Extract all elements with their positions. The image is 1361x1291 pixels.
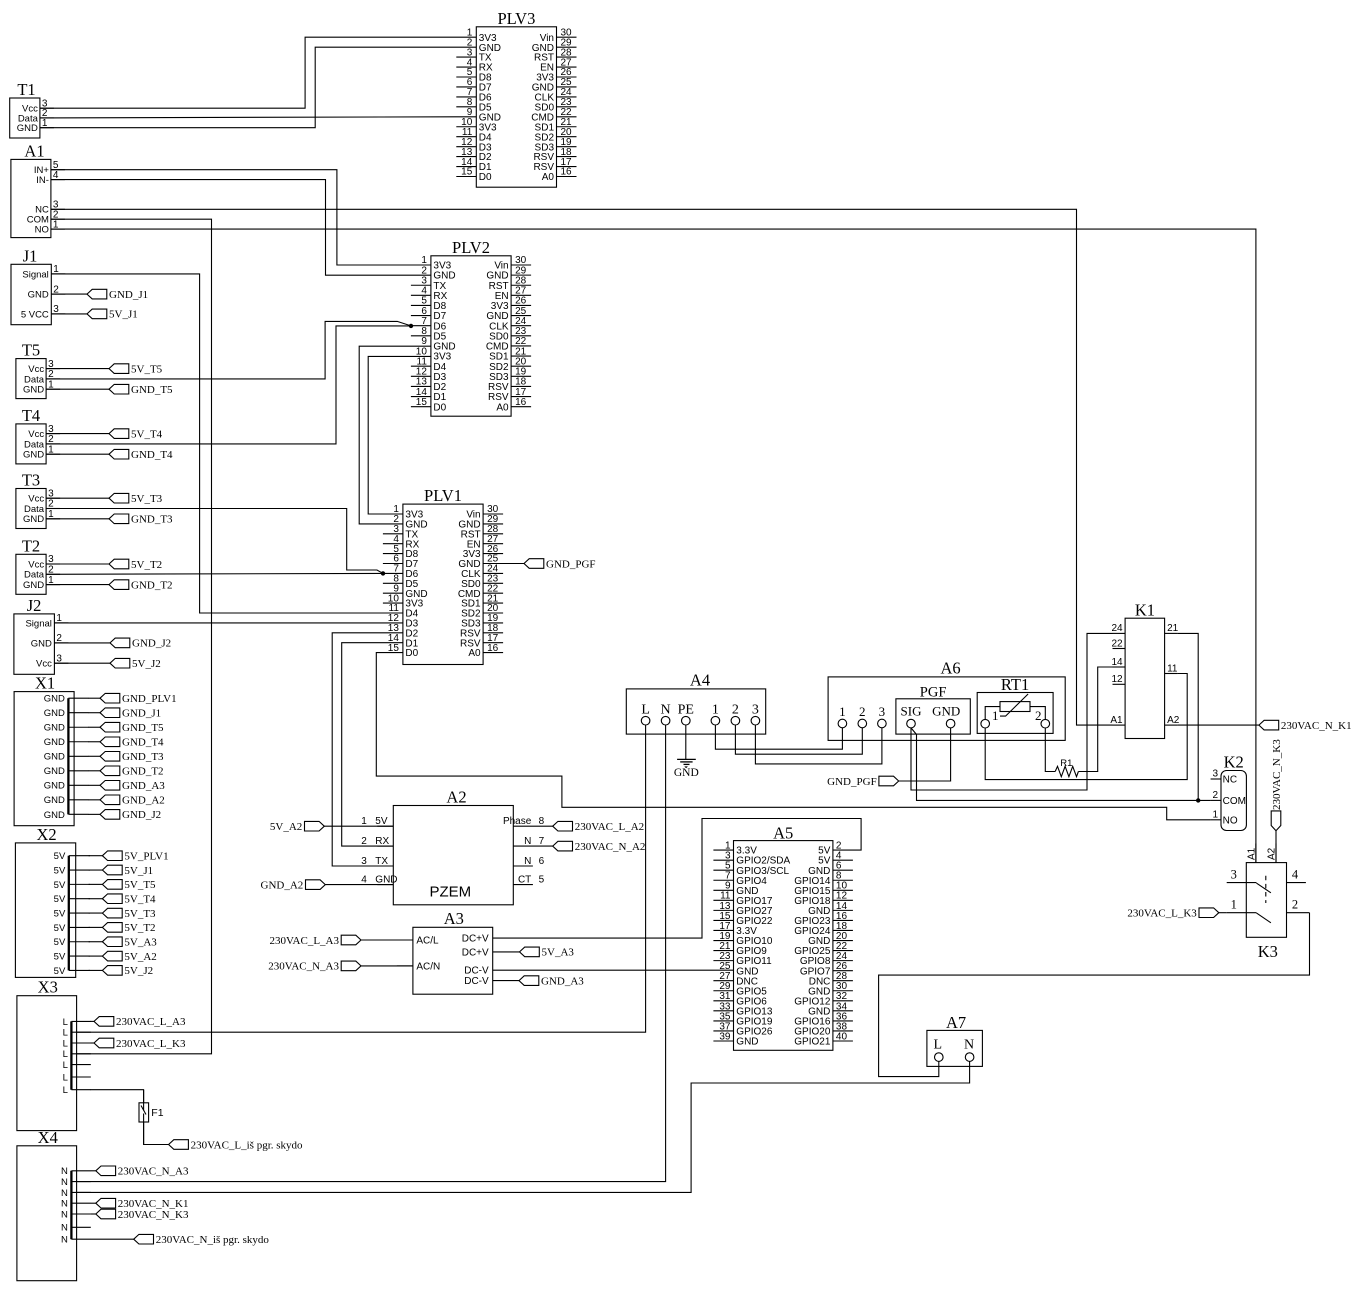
wire X2-5V_PLV1 xyxy=(89,855,103,857)
wire A3.DC-V-A5.25 xyxy=(493,969,734,971)
wire X2-5V_A2 xyxy=(89,955,103,957)
svg-text:A3: A3 xyxy=(444,909,464,928)
wire R1-K1.14 xyxy=(1078,667,1112,772)
X2 internal bus wire xyxy=(15,825,90,978)
net label 5V_J1 xyxy=(87,309,138,321)
svg-text:230VAC_N_K3: 230VAC_N_K3 xyxy=(118,1209,189,1221)
svg-text:7: 7 xyxy=(539,836,545,847)
svg-text:GND: GND xyxy=(17,123,38,134)
svg-text:GND_A2: GND_A2 xyxy=(122,795,165,807)
wire K3.2-A7.L xyxy=(879,913,1310,1077)
svg-text:14: 14 xyxy=(1111,657,1123,668)
wire RT1.2-R1 xyxy=(1045,728,1055,772)
wire X2-5V_T3 xyxy=(89,912,103,914)
svg-text:230VAC_N_A3: 230VAC_N_A3 xyxy=(118,1166,189,1178)
wire A3.DC-V-GND_A3 xyxy=(493,980,519,982)
svg-text:GND_J2: GND_J2 xyxy=(132,638,171,650)
svg-text:GND: GND xyxy=(736,1037,758,1048)
module PLV1 xyxy=(383,486,503,664)
svg-text:5V: 5V xyxy=(54,937,66,948)
wire T1.GND-PLV3.2 xyxy=(40,47,476,128)
svg-text:Vcc: Vcc xyxy=(36,659,52,670)
svg-text:N: N xyxy=(61,1235,68,1246)
net label 5V_A3 xyxy=(520,947,575,959)
net label 5V_T3 xyxy=(109,493,163,505)
wire J1.VCC-label xyxy=(51,313,87,315)
svg-text:GND_J2: GND_J2 xyxy=(122,809,161,821)
wire X1-GND_A3 xyxy=(88,784,100,786)
svg-text:GND: GND xyxy=(44,723,65,734)
svg-text:A2: A2 xyxy=(446,787,466,806)
wire A1.NC-K1.A1 xyxy=(51,209,1113,725)
wire X1-GND_J2 xyxy=(88,813,100,815)
wire A4.3-A6.3 xyxy=(755,725,882,764)
net label GND_PGF xyxy=(827,776,899,788)
wire X4.1-230VAC_N_A3 xyxy=(91,1170,96,1172)
wire X3.7-F1 xyxy=(90,1090,143,1103)
svg-text:GND: GND xyxy=(23,514,44,525)
svg-text:4: 4 xyxy=(1292,867,1299,881)
svg-text:GND: GND xyxy=(44,781,65,792)
junction at PLV1.D6 xyxy=(381,571,385,575)
wire PLV2.9-PLV1.2 xyxy=(359,346,431,524)
svg-text:T1: T1 xyxy=(17,80,35,99)
svg-text:N: N xyxy=(61,1188,68,1199)
svg-text:T2: T2 xyxy=(22,536,40,555)
svg-text:D0: D0 xyxy=(433,402,446,413)
sensor T3 xyxy=(16,471,60,529)
svg-text:230VAC_N_A2: 230VAC_N_A2 xyxy=(575,841,646,853)
svg-text:GND: GND xyxy=(31,638,52,649)
wire A2.8-230VAC_L_A2 xyxy=(513,825,552,827)
svg-text:N: N xyxy=(524,836,531,847)
wire T3.GND-label xyxy=(46,518,109,520)
net label GND_T4 xyxy=(100,737,164,749)
svg-text:D0: D0 xyxy=(405,648,418,659)
svg-text:11: 11 xyxy=(1167,663,1178,674)
wire X1-GND_T5 xyxy=(88,726,100,728)
svg-text:5V: 5V xyxy=(54,851,66,862)
svg-text:5V_A3: 5V_A3 xyxy=(542,947,575,959)
svg-text:5V_J2: 5V_J2 xyxy=(124,965,153,977)
wire A1.IN+-PLV2.1 xyxy=(51,170,431,265)
wire T1.Vcc-PLV3.1 xyxy=(40,37,476,108)
wire T2.Data-PLV1.D6 xyxy=(46,572,383,575)
net label GND_A2 xyxy=(261,879,326,891)
svg-text:21: 21 xyxy=(1167,623,1179,634)
svg-text:L: L xyxy=(63,1085,68,1096)
svg-text:5V_J1: 5V_J1 xyxy=(124,865,153,877)
svg-text:NO: NO xyxy=(1223,815,1238,826)
svg-text:5V_J2: 5V_J2 xyxy=(132,658,161,670)
net label 230VAC_N_A3 xyxy=(268,961,361,973)
svg-text:5V_A2: 5V_A2 xyxy=(270,821,302,833)
svg-text:2: 2 xyxy=(1035,708,1042,723)
svg-text:1: 1 xyxy=(361,816,367,827)
net label 230VAC_N_iš pgr. skydo xyxy=(134,1234,270,1246)
junction at PLV2.D6 xyxy=(409,324,413,328)
net label 230VAC_N_A2 xyxy=(553,841,646,853)
svg-text:RX: RX xyxy=(375,836,389,847)
wire 5V_A2-A2.1 xyxy=(324,825,393,827)
wire T5.Data-PLV2.D6 xyxy=(46,321,411,379)
svg-text:230VAC_L_iš pgr. skydo: 230VAC_L_iš pgr. skydo xyxy=(191,1139,303,1151)
wire T5.GND-label xyxy=(46,388,109,390)
svg-text:230VAC_N_K1: 230VAC_N_K1 xyxy=(1281,720,1352,732)
svg-text:GND_J1: GND_J1 xyxy=(122,708,161,720)
svg-text:1: 1 xyxy=(1212,809,1218,820)
svg-text:X1: X1 xyxy=(35,674,55,693)
svg-text:GND_A3: GND_A3 xyxy=(541,975,584,987)
svg-text:L: L xyxy=(63,1028,68,1039)
svg-text:L: L xyxy=(934,1037,943,1052)
wire T2.GND-label xyxy=(46,584,109,586)
wire GND_PGF-PGF.GND xyxy=(899,728,951,781)
svg-text:GND_T3: GND_T3 xyxy=(131,514,173,526)
net label 230VAC_N_K1 xyxy=(1259,720,1352,732)
svg-text:GND_T2: GND_T2 xyxy=(131,579,173,591)
wire A2.7-230VAC_N_A2 xyxy=(513,845,552,847)
net label 230VAC_L_K3 xyxy=(1127,908,1218,920)
svg-text:GND: GND xyxy=(23,580,44,591)
wire A3.DC+V-5V_A3 xyxy=(493,951,520,953)
net label GND_T5 xyxy=(109,384,173,396)
wire X1-GND_T3 xyxy=(88,755,100,757)
junction at K2.COM line xyxy=(1196,798,1200,802)
svg-text:GND_PGF: GND_PGF xyxy=(827,776,877,788)
svg-text:5V: 5V xyxy=(54,880,66,891)
net label GND_PGF xyxy=(524,558,596,570)
wire X2-5V_A3 xyxy=(89,941,103,943)
wire X3.3-230VAC_L_K3 xyxy=(90,1042,94,1044)
net label 5V_T2 xyxy=(102,922,155,934)
net label 5V_A3 xyxy=(102,937,157,949)
svg-text:1: 1 xyxy=(1231,898,1237,912)
svg-text:Signal: Signal xyxy=(22,269,48,280)
svg-text:2: 2 xyxy=(732,702,739,717)
svg-text:CT: CT xyxy=(518,874,531,885)
net label 5V_A2 xyxy=(270,821,324,833)
module PLV2 xyxy=(411,238,531,416)
net label 5V_J1 xyxy=(102,865,153,877)
net label GND_A3 xyxy=(519,975,584,987)
svg-text:230VAC_L_K3: 230VAC_L_K3 xyxy=(116,1038,186,1050)
svg-text:NO: NO xyxy=(35,225,49,236)
X4 internal bus wire xyxy=(17,1128,91,1281)
wire T1.Data-PLV3.9 xyxy=(40,117,476,118)
svg-text:5V: 5V xyxy=(54,923,66,934)
wire X1-GND_T4 xyxy=(88,741,100,743)
resistor R1 xyxy=(1055,758,1078,777)
net label GND_T3 xyxy=(109,514,173,526)
svg-text:T5: T5 xyxy=(22,341,40,360)
svg-text:PLV1: PLV1 xyxy=(424,486,462,505)
svg-text:5: 5 xyxy=(539,874,545,885)
svg-text:16: 16 xyxy=(487,643,499,654)
svg-text:GND: GND xyxy=(23,450,44,461)
net label 230VAC_N_K1 xyxy=(96,1198,189,1210)
svg-text:N: N xyxy=(661,702,671,717)
wire A4.2-A6.2 xyxy=(735,725,862,754)
svg-text:5V_J1: 5V_J1 xyxy=(109,309,138,321)
svg-text:PLV2: PLV2 xyxy=(452,238,490,257)
svg-text:230VAC_L_A3: 230VAC_L_A3 xyxy=(270,935,340,947)
net label 5V_T4 xyxy=(109,428,163,440)
svg-text:A5: A5 xyxy=(773,823,793,842)
wire PLV1.D0-K2.NO xyxy=(376,653,1210,820)
svg-text:L: L xyxy=(641,702,650,717)
svg-text:12: 12 xyxy=(1111,674,1123,685)
svg-text:GND_J1: GND_J1 xyxy=(109,289,148,301)
relay K1 xyxy=(1110,601,1179,739)
svg-text:NC: NC xyxy=(1223,775,1237,786)
net label 230VAC_N_K3 xyxy=(96,1209,189,1221)
svg-text:1: 1 xyxy=(992,708,999,723)
svg-text:J1: J1 xyxy=(23,246,38,265)
svg-text:GND: GND xyxy=(932,703,960,718)
net label 5V_T3 xyxy=(102,908,156,920)
svg-text:L: L xyxy=(63,1072,68,1083)
wire T3.Data-PLV1.D6 xyxy=(46,509,383,574)
svg-text:GND_T3: GND_T3 xyxy=(122,751,164,763)
svg-text:4: 4 xyxy=(361,874,367,885)
svg-text:N: N xyxy=(524,856,531,867)
svg-text:GND_A3: GND_A3 xyxy=(122,780,165,792)
svg-text:TX: TX xyxy=(375,856,388,867)
net label 230VAC_L_iš pgr. skydo xyxy=(169,1139,303,1151)
svg-text:GND: GND xyxy=(375,874,397,885)
svg-text:GND: GND xyxy=(44,752,65,763)
wire 230VAC_L_A3-A3 xyxy=(361,939,413,941)
svg-text:A0: A0 xyxy=(496,402,509,413)
svg-text:X4: X4 xyxy=(38,1128,58,1147)
svg-text:PGF: PGF xyxy=(920,685,947,701)
svg-text:2: 2 xyxy=(1212,790,1218,801)
svg-text:A4: A4 xyxy=(690,671,710,690)
wire J1.Signal-PLV1.D4 xyxy=(51,274,403,613)
svg-text:GPIO21: GPIO21 xyxy=(794,1037,831,1048)
svg-text:N: N xyxy=(61,1209,68,1220)
net label 230VAC_L_A3 xyxy=(94,1016,186,1028)
wire X1-GND_A2 xyxy=(88,799,100,801)
svg-text:5V: 5V xyxy=(54,894,66,905)
svg-text:GND_T4: GND_T4 xyxy=(131,449,173,461)
svg-text:5V_T5: 5V_T5 xyxy=(124,879,156,891)
svg-text:230VAC_N_iš pgr. skydo: 230VAC_N_iš pgr. skydo xyxy=(156,1234,270,1246)
connector J2 xyxy=(14,596,69,674)
svg-text:A0: A0 xyxy=(542,172,555,183)
sensor T1 xyxy=(10,80,54,138)
wire T2.Vcc-label xyxy=(46,563,109,565)
svg-text:8: 8 xyxy=(539,816,545,827)
net label 230VAC_L_K3 xyxy=(94,1038,186,1050)
svg-text:SIG: SIG xyxy=(901,703,922,718)
svg-text:A1: A1 xyxy=(1110,715,1123,726)
svg-text:N: N xyxy=(61,1223,68,1234)
svg-text:GND: GND xyxy=(44,694,65,705)
svg-text:PLV3: PLV3 xyxy=(497,9,535,28)
svg-text:22: 22 xyxy=(1111,638,1123,649)
svg-text:IN-: IN- xyxy=(36,175,49,186)
net label 230VAC_L_A2 xyxy=(553,821,644,833)
svg-text:2: 2 xyxy=(1292,898,1298,912)
svg-text:3: 3 xyxy=(361,856,367,867)
wire X1-GND_PLV1 xyxy=(88,697,100,699)
module PLV3 xyxy=(456,9,576,187)
svg-text:24: 24 xyxy=(1111,623,1123,634)
svg-text:6: 6 xyxy=(539,856,545,867)
svg-text:GND_A2: GND_A2 xyxy=(261,879,304,891)
wire A1.IN--PLV2.2 xyxy=(51,180,431,276)
svg-text:Signal: Signal xyxy=(25,618,51,629)
svg-text:230VAC_L_K3: 230VAC_L_K3 xyxy=(1127,908,1197,920)
wire X2-5V_J2 xyxy=(89,969,103,971)
svg-text:2: 2 xyxy=(859,704,866,719)
wire PLV2.10-PLV1.1 xyxy=(368,356,431,514)
svg-text:1: 1 xyxy=(712,702,719,717)
net label GND_J1 xyxy=(87,289,148,301)
wire F1-230VAC_L_is xyxy=(144,1122,169,1145)
svg-text:5V: 5V xyxy=(54,951,66,962)
wire A3.DC+V-A5.2 xyxy=(493,819,861,939)
net label GND_T4 xyxy=(109,449,173,461)
svg-text:5V: 5V xyxy=(375,816,388,827)
wire J2.Signal-PLV1.D3 xyxy=(54,622,403,624)
GPIO header A5 xyxy=(713,823,853,1050)
wire A1.COM-X3.4 xyxy=(51,219,212,1054)
wire GND_A2-A2.4 xyxy=(325,884,393,886)
svg-text:5V: 5V xyxy=(54,865,66,876)
svg-text:N: N xyxy=(964,1037,974,1052)
svg-text:X3: X3 xyxy=(38,978,58,997)
net label 5V_T2 xyxy=(109,559,162,571)
svg-text:COM: COM xyxy=(1223,796,1246,807)
svg-text:GND_PLV1: GND_PLV1 xyxy=(122,693,177,705)
wire 230VAC_N_K3-K3.A2 xyxy=(1275,831,1277,863)
wire X3.1-230VAC_L_A3 xyxy=(90,1020,94,1022)
svg-text:R1: R1 xyxy=(1060,758,1072,769)
svg-text:15: 15 xyxy=(416,397,428,408)
svg-text:GND: GND xyxy=(44,766,65,777)
wire X4.7-230VAC_N_is xyxy=(91,1238,134,1240)
svg-text:A2: A2 xyxy=(1167,715,1180,726)
svg-text:5V: 5V xyxy=(54,966,66,977)
svg-text:K1: K1 xyxy=(1135,601,1155,620)
svg-text:T4: T4 xyxy=(22,406,40,425)
wire 230VAC_L_K3-K3.1 xyxy=(1219,912,1227,914)
svg-text:1: 1 xyxy=(839,704,846,719)
svg-text:L: L xyxy=(63,1060,68,1071)
svg-text:DC+V: DC+V xyxy=(462,934,489,945)
terminal A4 xyxy=(626,671,765,734)
wire PLV1.D2-A2.TX xyxy=(332,633,403,866)
svg-text:3: 3 xyxy=(1212,769,1218,780)
wire T4.Vcc-label xyxy=(46,433,109,435)
svg-text:40: 40 xyxy=(836,1031,848,1042)
svg-text:5V: 5V xyxy=(54,908,66,919)
svg-text:5V_T4: 5V_T4 xyxy=(124,894,156,906)
svg-text:GND: GND xyxy=(44,737,65,748)
wire X4.4-230VAC_N_K1 xyxy=(91,1202,96,1204)
svg-text:X2: X2 xyxy=(36,825,56,844)
svg-text:GND: GND xyxy=(28,290,49,301)
net label GND_T3 xyxy=(100,751,164,763)
wire A4.1-A6.1 xyxy=(715,725,842,749)
svg-text:L: L xyxy=(63,1017,68,1028)
wire PGF.SIG-K2.COM xyxy=(911,728,1211,801)
svg-text:5 VCC: 5 VCC xyxy=(21,309,49,320)
svg-text:5V_T3: 5V_T3 xyxy=(131,493,163,505)
svg-text:L: L xyxy=(63,1038,68,1049)
net label GND_J2 xyxy=(110,638,171,650)
svg-text:L: L xyxy=(63,1049,68,1060)
svg-text:5V_T3: 5V_T3 xyxy=(124,908,156,920)
svg-text:T3: T3 xyxy=(22,471,40,490)
X3 internal bus wire xyxy=(17,978,91,1131)
net label 5V_J2 xyxy=(110,658,161,670)
net label 5V_PLV1 xyxy=(102,851,168,863)
net label 5V_A2 xyxy=(102,951,156,963)
net label GND_J1 xyxy=(100,708,161,720)
svg-text:GND: GND xyxy=(44,810,65,821)
wire X1-GND_J1 xyxy=(88,712,100,714)
svg-text:GND_PGF: GND_PGF xyxy=(546,558,596,570)
svg-text:DC-V: DC-V xyxy=(464,976,489,987)
net label GND_A3 xyxy=(100,780,165,792)
svg-text:D0: D0 xyxy=(479,172,492,183)
svg-text:RT1: RT1 xyxy=(1001,675,1029,694)
wire J2.GND-label xyxy=(54,642,110,644)
wire A4.N-X4.2 xyxy=(77,725,666,1182)
net label 5V_J2 xyxy=(102,965,153,977)
svg-text:K3: K3 xyxy=(1258,942,1278,961)
svg-text:15: 15 xyxy=(461,167,473,178)
svg-text:230VAC_N_K3: 230VAC_N_K3 xyxy=(1271,739,1283,810)
net label 5V_T5 xyxy=(102,879,156,891)
svg-text:GND: GND xyxy=(23,385,44,396)
svg-text:5V_A2: 5V_A2 xyxy=(124,951,156,963)
wire T3.Vcc-label xyxy=(46,497,109,499)
svg-text:GND_T2: GND_T2 xyxy=(122,766,164,778)
svg-text:A1: A1 xyxy=(24,142,44,161)
svg-text:16: 16 xyxy=(561,167,573,178)
net label 230VAC_N_A3 xyxy=(96,1166,189,1178)
wire K1.21-COMline xyxy=(1178,633,1199,800)
net label GND_J2 xyxy=(100,809,161,821)
net label GND_A2 xyxy=(100,795,165,807)
net label 5V_T5 xyxy=(109,363,163,375)
svg-text:GND: GND xyxy=(44,795,65,806)
svg-text:AC/N: AC/N xyxy=(416,962,440,973)
svg-text:2: 2 xyxy=(361,836,367,847)
svg-text:J2: J2 xyxy=(27,596,42,615)
svg-text:39: 39 xyxy=(719,1031,731,1042)
relay K2 xyxy=(1211,753,1247,831)
net label 230VAC_L_A3 xyxy=(270,935,361,947)
net label GND_PLV1 xyxy=(100,693,177,705)
svg-text:DC+V: DC+V xyxy=(462,948,489,959)
wire PGF.SIG-K1.24 xyxy=(911,633,1113,790)
svg-text:5V_T4: 5V_T4 xyxy=(131,428,163,440)
svg-text:PZEM: PZEM xyxy=(429,884,471,901)
svg-text:230VAC_L_A3: 230VAC_L_A3 xyxy=(116,1016,186,1028)
wire J1.GND-label xyxy=(51,293,87,295)
relay K3 xyxy=(1227,844,1310,962)
wire X1-GND_T2 xyxy=(88,770,100,772)
svg-text:A7: A7 xyxy=(946,1013,966,1032)
svg-text:GND: GND xyxy=(674,767,699,779)
svg-text:16: 16 xyxy=(515,397,527,408)
